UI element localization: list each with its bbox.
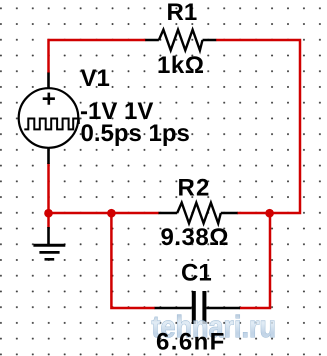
wire C1 right up to node C [240,213,271,308]
svg-text:1kΩ: 1kΩ [157,52,204,79]
wire R2 right to node C [237,212,270,215]
ground [33,227,65,259]
svg-text:6.6nF: 6.6nF [156,329,226,356]
wire node B down to C1 left [111,213,155,308]
junction node A [44,209,53,218]
voltage source V1 [19,73,79,165]
svg-text:C1: C1 [181,260,212,287]
capacitor C1 [155,291,240,324]
wire from R1 right to right branch corner [216,40,300,213]
wire R2 row left (node A to R2) [47,212,159,215]
junction node C [265,209,274,218]
wire from V1 top to R1 left [49,40,146,73]
svg-text:R1: R1 [167,0,198,26]
wire V1 bottom to ground node [47,163,50,228]
svg-text:0.5ps 1ps: 0.5ps 1ps [81,120,190,147]
svg-text:V1: V1 [81,65,110,92]
junction node B [107,209,116,218]
resistor R1 [145,30,216,51]
svg-text:9.38Ω: 9.38Ω [161,224,229,251]
resistor R2 [159,203,238,224]
svg-text:R2: R2 [178,175,211,202]
watermark tehnari.ru [152,310,276,344]
